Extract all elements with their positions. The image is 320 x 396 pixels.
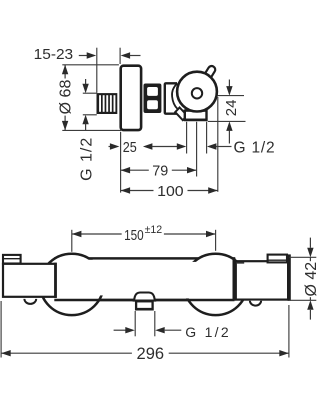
- svg-text:296: 296: [137, 345, 165, 363]
- svg-text:79: 79: [152, 163, 168, 180]
- svg-text:150: 150: [124, 228, 144, 244]
- svg-text:G 1/2: G 1/2: [185, 324, 231, 340]
- svg-text:G 1/2: G 1/2: [234, 139, 276, 156]
- svg-text:±12: ±12: [145, 224, 163, 236]
- svg-text:G 1/2: G 1/2: [78, 137, 95, 181]
- svg-text:25: 25: [123, 139, 137, 156]
- svg-text:Ø 68: Ø 68: [58, 80, 75, 115]
- svg-text:24: 24: [223, 100, 240, 117]
- svg-text:Ø 42: Ø 42: [303, 262, 320, 297]
- svg-text:100: 100: [157, 183, 184, 200]
- svg-text:15-23: 15-23: [34, 46, 74, 63]
